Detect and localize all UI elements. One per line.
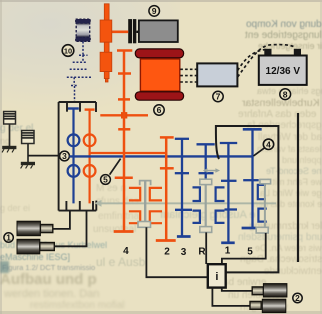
wire 5th synchro to final drive [222, 233, 266, 264]
wire actuator 1a to housing [53, 211, 70, 229]
actuator motor 2b body [262, 299, 286, 312]
power electronics U7 box [197, 63, 237, 86]
battery U8 terminals [264, 49, 271, 56]
label 10 circled [62, 45, 74, 57]
svg-text:2: 2 [295, 293, 300, 303]
dual clutch U6 lower drum [135, 92, 183, 100]
bleed-through text (reverse page) [246, 19, 322, 30]
dashed machine M10 body [76, 23, 90, 37]
label 5 circled with pointer [101, 159, 121, 185]
dual clutch U6 upper drum [135, 49, 183, 58]
blue shaft C [175, 139, 192, 237]
dual clutch U6 housing [140, 59, 179, 91]
blue transfer gear circle lower [68, 165, 80, 177]
actuator motor 1b body [17, 239, 40, 254]
orange dog clutch claws (gear4/gear2) [129, 188, 162, 223]
svg-text:1: 1 [225, 246, 231, 257]
orange transfer gear circle lower [84, 165, 96, 177]
main input shaft K1 line (orange horizontal) [90, 152, 167, 154]
gear 4 wheel bar [114, 230, 134, 233]
svg-text:4: 4 [266, 139, 271, 149]
blue transfer shaft [68, 109, 80, 204]
final drive box I [208, 264, 226, 287]
svg-text:2: 2 [164, 247, 170, 258]
gear 3 wheel bar [177, 235, 191, 238]
paper background patches [0, 0, 180, 110]
dashed machine M10 bottom hatched bar [76, 37, 91, 41]
svg-text:9: 9 [152, 6, 157, 16]
orange shaft A (clutch output) [114, 51, 134, 232]
label 6 circled [154, 105, 164, 115]
wire final drive to actuator 2a [222, 288, 252, 291]
wire reverse synchro to final drive [205, 232, 207, 264]
battery U8 body [259, 56, 307, 85]
synchronizer (5th) gray parts [256, 179, 270, 233]
gear 1 wheel bar [221, 241, 235, 244]
wire damper to node 3 [28, 155, 60, 157]
damper 2 rod [27, 144, 29, 163]
actuator motor 1b nub [40, 243, 55, 251]
label 4 circled with pointer [253, 139, 273, 156]
gray shift arrow [203, 168, 220, 173]
wire final drive to actuator 2b [212, 288, 250, 306]
svg-text:7: 7 [216, 92, 221, 102]
svg-text:10: 10 [64, 46, 72, 55]
actuator motor 1a nub [40, 225, 52, 233]
dashed linkage below M10 [67, 42, 92, 102]
svg-text:12/36 V: 12/36 V [266, 66, 301, 77]
gear 2 wheel bar [156, 239, 176, 242]
orange transfer gear circle upper [84, 134, 96, 146]
blue shaft E [220, 143, 237, 243]
dashed machine M10 top hatched bar [76, 19, 91, 23]
wire orange synchro to final drive [146, 227, 207, 277]
synchronizer (reverse) gray parts [200, 168, 220, 232]
wire actuator 1b to housing [54, 211, 86, 246]
svg-text:5: 5 [247, 247, 253, 258]
label 3 circled [60, 151, 70, 161]
svg-text:1: 1 [6, 233, 11, 243]
synchronizer (orange group) gray parts [138, 181, 151, 228]
actuator motor 2b nub [250, 301, 261, 309]
orange transfer shaft [84, 110, 96, 204]
actuator motor 2a nub [252, 287, 263, 295]
input shaft (orange, vertical) [100, 4, 112, 82]
gear mesh link on input shaft [100, 112, 148, 118]
svg-text:8: 8 [283, 89, 288, 99]
engine damper 1 piston [4, 112, 16, 125]
actuator motor 2a body [263, 284, 287, 297]
label 7 circled [213, 91, 223, 101]
damper 2 ground [21, 162, 35, 169]
output connector frame (main shaft to final drive) [216, 126, 279, 272]
loose page rule line [297, 113, 299, 262]
svg-text:i: i [215, 271, 218, 283]
orange shaft B [156, 137, 176, 240]
engine damper 2 piston [22, 131, 34, 144]
wire shaft to machine U9 [111, 30, 129, 33]
blue shaft F [242, 129, 262, 228]
label 2 circled [293, 293, 302, 303]
damper 1 rod [9, 124, 11, 146]
label 8 circled [280, 89, 291, 100]
svg-text:3: 3 [62, 151, 67, 161]
main input shaft K2 line (blue horizontal) [69, 155, 253, 157]
gearbox housing top wall [59, 102, 96, 211]
blue dog clutch claws (5th synchro) [258, 185, 267, 222]
damper 1 ground [2, 146, 16, 153]
electric machine U9 body [139, 20, 178, 42]
svg-text:R: R [198, 247, 206, 258]
svg-text:4: 4 [123, 246, 129, 257]
power flow arrow (gray) [95, 200, 277, 207]
gear number labels [123, 246, 253, 258]
electric machine U9 black commutator bars [128, 19, 139, 43]
svg-text:5: 5 [103, 175, 108, 185]
label 9 circled [149, 6, 160, 17]
svg-text:6: 6 [157, 105, 162, 115]
dashed wires clutch U6 to U7 [180, 69, 197, 82]
blue shaft D (reverse) [197, 144, 215, 179]
dashed wires U7 to battery U8 [238, 45, 295, 77]
blue transfer gear circle upper [68, 134, 80, 146]
actuator motor 1a body [17, 221, 40, 236]
blue dog clutch claws (reverse synchro) [193, 187, 225, 223]
label 1 circled [4, 233, 13, 243]
svg-text:3: 3 [181, 247, 187, 258]
gear 5 wheel bar [242, 227, 257, 230]
gearbox housing bottom wall [59, 201, 97, 211]
